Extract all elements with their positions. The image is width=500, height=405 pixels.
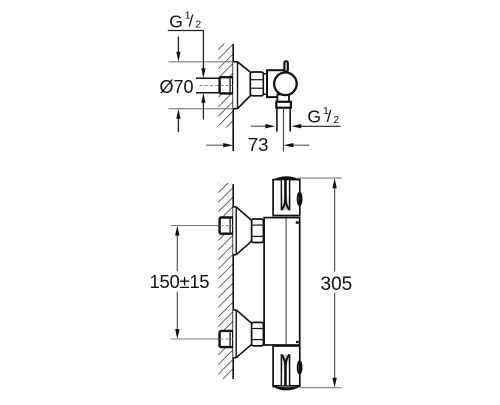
union tailpiece nut (top view): [220, 77, 234, 93]
150±15 dimension line: [175, 226, 179, 339]
centreline (top view): [200, 85, 233, 87]
upper centreline dashes: [220, 225, 233, 227]
wall hatch (top view): [218, 44, 233, 128]
svg-text:2: 2: [195, 19, 201, 31]
upper escutcheon cone (bottom view): [233, 207, 251, 255]
extension line 305 bottom: [301, 387, 342, 389]
svg-text:73: 73: [248, 134, 269, 155]
economy button lower: [296, 341, 299, 343]
73 dimension: [206, 143, 309, 147]
outlet pipe G1/2 (top view): [277, 108, 290, 152]
lower escutcheon cone (bottom view): [233, 310, 251, 358]
wall surface line (bottom view): [232, 184, 234, 379]
G1/2 hose arrows (top view outlet): [251, 124, 301, 128]
svg-text:2: 2: [333, 114, 339, 126]
bar body (bottom view): [264, 218, 300, 345]
Ø70 dimension arrows: [176, 37, 180, 133]
valve body (top view): [267, 70, 285, 97]
escutcheon cone (top view): [233, 62, 250, 109]
svg-text:Ø70: Ø70: [160, 77, 194, 97]
svg-text:G: G: [307, 107, 321, 127]
G1/2 leader arrow down to pipe top (top view): [201, 31, 205, 79]
lower centreline dashes: [220, 338, 233, 340]
svg-text:150±15: 150±15: [150, 271, 210, 292]
thermostat knob circle (top view): [274, 73, 297, 96]
extension line 150 upper: [171, 225, 220, 227]
wall surface line (top view): [232, 44, 234, 151]
G1/2 arrow up to pipe bottom (top view): [201, 93, 205, 120]
hex nut (top view): [250, 72, 263, 96]
305 dimension line: [332, 178, 336, 387]
safety-stop stem (top view): [284, 61, 287, 71]
hose nut (top view): [276, 102, 291, 108]
extension line Ø70 bottom: [169, 108, 234, 110]
svg-text:305: 305: [321, 274, 353, 295]
extension line Ø70 top: [169, 61, 234, 63]
G 1/2 label (top): [168, 10, 204, 32]
svg-text:G: G: [169, 12, 183, 32]
upper hex nut (bottom view): [252, 219, 264, 243]
pipe tail (top view): [196, 78, 220, 92]
extension line 150 lower: [171, 338, 220, 340]
G 1/2 label (right): [301, 105, 341, 127]
lower tailpiece nut (bottom view): [220, 331, 234, 347]
economy button upper: [296, 221, 299, 224]
wall hatch (bottom view): [218, 183, 233, 379]
outlet cone below circle (top view): [277, 95, 289, 102]
neck (top view): [263, 74, 267, 94]
lower knob (volume handle): [273, 346, 302, 390]
extension line 305 top: [298, 177, 342, 179]
lower hex nut (bottom view): [252, 322, 264, 346]
svg-text:/: /: [327, 107, 332, 126]
upper knob (temperature handle): [273, 177, 302, 216]
upper tailpiece nut (bottom view): [220, 218, 234, 234]
svg-text:/: /: [189, 12, 194, 31]
